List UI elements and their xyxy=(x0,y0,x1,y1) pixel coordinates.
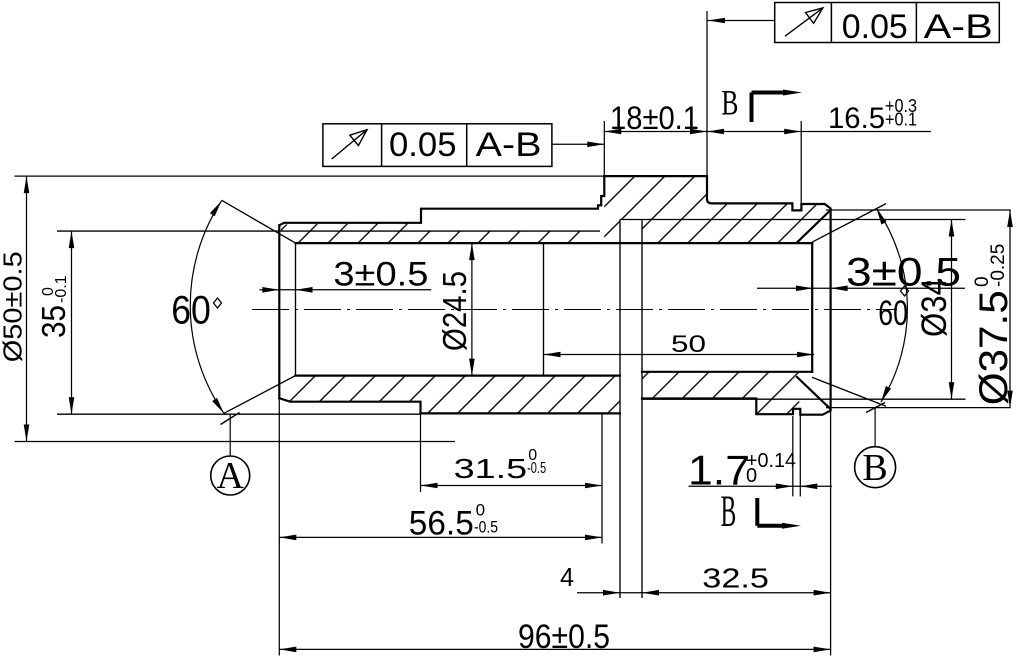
svg-text:-0.1: -0.1 xyxy=(53,275,70,303)
svg-text:16.5: 16.5 xyxy=(828,102,885,135)
svg-text:56.5: 56.5 xyxy=(409,504,474,542)
svg-text:Ø34: Ø34 xyxy=(915,278,954,337)
svg-text:18±0.1: 18±0.1 xyxy=(610,100,699,136)
svg-text:-0.5: -0.5 xyxy=(527,460,546,477)
svg-text:31.5: 31.5 xyxy=(454,453,528,484)
svg-text:A: A xyxy=(216,455,244,497)
svg-text:60: 60 xyxy=(171,289,211,333)
svg-text:-0.5: -0.5 xyxy=(474,517,498,536)
svg-text:35: 35 xyxy=(35,305,72,338)
svg-text:50: 50 xyxy=(671,331,706,358)
svg-text:4: 4 xyxy=(560,562,574,592)
svg-text:B: B xyxy=(862,447,887,489)
svg-text:0: 0 xyxy=(746,465,757,487)
svg-text:B: B xyxy=(721,82,738,122)
svg-text:Ø37.5: Ø37.5 xyxy=(972,290,1016,405)
svg-text:60: 60 xyxy=(878,294,908,333)
svg-text:0.05: 0.05 xyxy=(842,8,908,46)
svg-text:-0.25: -0.25 xyxy=(988,244,1009,287)
svg-text:3±0.5: 3±0.5 xyxy=(333,256,428,294)
svg-text:32.5: 32.5 xyxy=(702,563,769,594)
svg-text:A-B: A-B xyxy=(476,126,542,164)
svg-text:0.05: 0.05 xyxy=(389,126,457,164)
svg-text:+0.1: +0.1 xyxy=(885,110,917,130)
svg-text:A-B: A-B xyxy=(924,8,993,46)
svg-text:96±0.5: 96±0.5 xyxy=(518,618,610,656)
svg-text:1.7: 1.7 xyxy=(688,447,750,494)
svg-text:B: B xyxy=(721,486,737,535)
svg-text:Ø24.5: Ø24.5 xyxy=(436,271,473,351)
svg-text:Ø50±0.5: Ø50±0.5 xyxy=(0,251,28,362)
